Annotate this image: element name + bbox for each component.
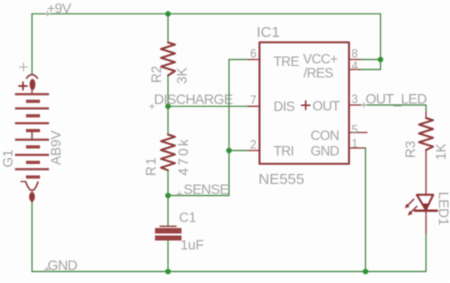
svg-text:7: 7 [250,95,256,107]
battery plate narrow 3 [26,129,40,132]
battery origin cross [20,63,28,71]
IC1 origin cross [302,101,310,109]
battery plate wide 2 [15,107,49,109]
battery mid connector [31,132,33,139]
svg-text:LED1: LED1 [436,192,450,226]
node DISCHARGE label [150,91,233,109]
wire battery bottom [31,202,33,272]
wire R2 top [167,14,169,43]
battery plate narrow 4 [26,145,40,148]
node GND label [45,257,78,273]
junction DISCHARGE [165,104,171,110]
svg-text:R1: R1 [144,156,159,176]
wire pin2 [229,150,248,152]
svg-text:IC1: IC1 [257,24,280,41]
junction VCC [378,57,384,63]
node OUT_LED label [362,91,427,108]
junction pin1-GND [363,269,369,275]
wire pin4 to junction [361,69,381,71]
pin 3 stub [349,104,361,106]
battery plate wide 1 [15,93,49,95]
wire R1 bottom [167,170,169,195]
battery plate narrow 6 [26,175,40,178]
svg-text:1: 1 [352,138,358,150]
battery plate narrow 5 [26,161,40,164]
wire pin6 [229,59,248,61]
pin 8 stub [349,59,361,61]
battery plate wide 6 [15,168,49,170]
svg-text:AB9V: AB9V [49,130,64,165]
svg-text:R2: R2 [149,66,164,83]
pin 5 stub [349,132,367,134]
battery bottom clip [26,182,38,191]
wire LED bottom [425,211,427,234]
wire R3 to LED [425,150,427,195]
wire pin8 to junction [361,59,381,61]
svg-text:GND: GND [311,144,340,159]
LED1 [405,192,450,226]
resistor R2 [149,43,190,85]
battery plate wide 4 [15,139,49,141]
resistor R3 [403,118,449,160]
svg-text:3K: 3K [175,67,190,84]
wire C1 bottom [167,241,169,272]
wire pin8-pin4 vertical [380,60,382,70]
wire +9V down to pin8 [380,14,382,60]
svg-text:VCC+: VCC+ [303,51,338,66]
pin 7 stub [248,105,260,107]
LED arrow 1 [408,199,414,205]
svg-text:G1: G1 [1,149,16,167]
node SENSE label [177,181,229,197]
wire R2 bottom [167,76,169,106]
svg-text:C1: C1 [179,210,196,225]
battery minus sign [21,181,26,183]
pin 2 stub [248,150,260,152]
svg-text:SENSE: SENSE [184,181,229,197]
svg-text:CON: CON [311,128,340,143]
pin 6 stub [248,59,260,61]
wire TRE-TRI vertical [228,60,230,196]
svg-text:4: 4 [352,61,359,73]
svg-text:R3: R3 [403,141,418,158]
battery plate wide 5 [15,154,49,156]
svg-text:TRE: TRE [274,54,300,69]
svg-text:OUT_LED: OUT_LED [366,91,427,107]
wire +9V top rail [32,13,381,15]
wire pin1 down to GND [365,148,367,272]
svg-text:470k: 470k [176,137,191,175]
resistor R1 [144,135,192,177]
wire GND bottom rail [32,271,426,273]
svg-text:3: 3 [352,94,358,106]
pin 1 stub [349,147,366,149]
svg-text:DIS: DIS [274,99,296,114]
svg-text:1uF: 1uF [181,237,204,252]
svg-text:2: 2 [250,140,256,152]
battery plate narrow 2 [26,114,40,117]
battery top clip [27,75,38,79]
svg-text:NE555: NE555 [259,171,305,188]
junction R2 top [165,11,171,17]
svg-text:8: 8 [352,49,358,61]
capacitor C1 [155,210,204,253]
battery plate wide 3 [15,122,49,124]
op-amp U1 / IC1 NE555 box [260,42,350,164]
wire OUT_LED corner down [425,105,427,112]
wire R3 top stub [425,112,427,118]
wire R1 top [167,106,169,134]
svg-text:GND: GND [48,257,78,273]
LED cathode bar [415,210,437,212]
wire C1 top [167,196,169,227]
wire OUT_LED [361,104,426,106]
junction TRI [226,148,232,154]
battery plate narrow 1 [26,100,40,103]
LED triangle [417,195,433,210]
svg-text:6: 6 [250,49,256,61]
wire battery top [31,14,33,74]
wire DISCHARGE [168,105,248,107]
junction SENSE [165,193,171,199]
svg-text:OUT: OUT [313,99,340,114]
svg-text:TRI: TRI [274,144,294,159]
svg-text:/RES: /RES [304,65,334,80]
junction C1-GND [165,269,171,275]
battery plus sign [19,82,27,90]
battery G1 [1,63,64,203]
svg-text:+9V: +9V [47,0,72,16]
svg-text:5: 5 [352,125,358,137]
svg-text:DISCHARGE: DISCHARGE [154,91,233,107]
node +9V label [45,0,72,16]
LED arrow 2 [411,206,417,212]
svg-text:1K: 1K [434,143,449,160]
wire SENSE [168,195,229,197]
pin 4 stub [349,69,361,71]
